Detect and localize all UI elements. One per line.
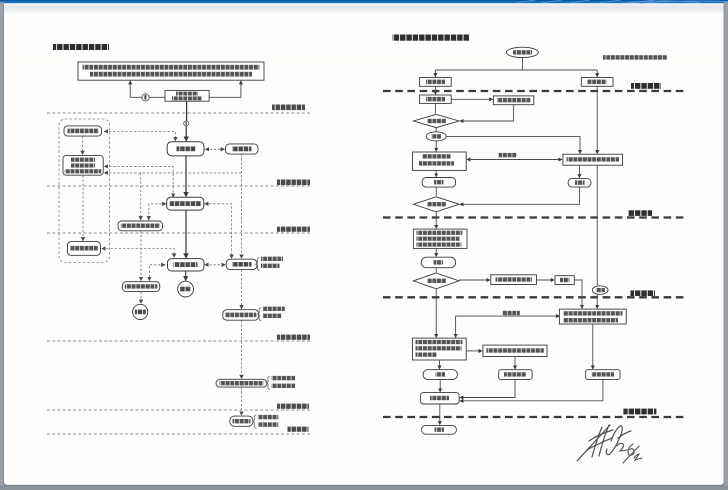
wire diamond2 down to 方案设计 box crossing separator [435, 212, 437, 229]
dashed wire 机电给排水设计 to 出图 2 [140, 292, 142, 304]
box 建筑方案设计 [64, 126, 102, 136]
circle 出图 2 [133, 304, 148, 319]
brace and timing 正常45天/特殊35天 [266, 376, 295, 390]
dashed wire 装修施工图 to 家私设计 [205, 264, 225, 266]
dashed wire into 建筑方案设计 and down into 装修方案 [105, 132, 176, 141]
circle 出图 1 [178, 281, 194, 297]
wire bypass 软装设计 long vertical down [596, 86, 598, 153]
box 方案概念设计(概念、意向图片) [413, 152, 467, 170]
dashed wire 机电初步 down to 机电给排水设计 [140, 231, 142, 281]
dashed vertical 软装方案 down to 家私设计 [241, 154, 243, 258]
blue bar decorative swirls [515, 0, 728, 3]
box 建筑施工蓝图 [68, 242, 101, 256]
stage separator 分工阶段 [383, 83, 688, 91]
wire 概念设计 to 审批L [435, 170, 437, 176]
wire 通过 down to 方案概念设计 [435, 141, 437, 151]
dashed vertical 采购 down to 软装陈设 [241, 387, 243, 415]
box 饰品及其它设计 [223, 310, 259, 321]
diamond 院长审定 1 [413, 114, 459, 127]
oval 通过 1 [426, 132, 446, 141]
wire spine 装修施工条件图 to 装修施工图 [185, 210, 187, 258]
wire 审核4 down to 院长审定4 [439, 379, 441, 391]
stage separator 项目开盘 [47, 427, 311, 434]
wire feedback right from 区域总审批 to task box [209, 81, 241, 97]
stage separator 施工图阶段 [383, 409, 688, 417]
box 机电给排水设计 [122, 282, 159, 292]
wire 通过 right to 软装意向 box [446, 136, 580, 153]
node circle 1 [142, 94, 149, 101]
dashed vertical 家私设计 down to 饰品及其它设计 [241, 270, 243, 309]
box 方案设计 [420, 78, 452, 87]
wire 方案设计 to 平面手稿 [434, 86, 436, 94]
box 审批 3 [421, 257, 455, 268]
dashed wire into 初步图 upper, branch down to 条件图 [105, 166, 174, 197]
box 家私设计 [226, 259, 257, 269]
box 审核、校对 M [499, 370, 532, 380]
box 区域总审批/集团决策委审定 [165, 90, 209, 101]
wire 审批3 to diamond3 [435, 268, 437, 273]
dashed container left column [59, 119, 110, 263]
wire 平立面大样 down to 审核校对M [514, 357, 516, 369]
box 家私、饰品及其它采购 [216, 379, 267, 387]
right frame border [724, 2, 728, 490]
wire spine 区域总审批 down to node 2 [186, 101, 188, 121]
dashed wire into 蓝图 and down into 装修施工图 [102, 249, 174, 258]
signature scribble [577, 425, 631, 461]
wire 审批S right down into 软装方案设计 [574, 280, 582, 308]
box 审批 S [555, 276, 574, 285]
wire 审核校对R down-left to 院长审定4 [460, 379, 603, 400]
dashed wire 建筑方案设计 to 初步图 box [82, 136, 84, 154]
stage separator 设计出图阶段 [47, 335, 311, 341]
box 装修施工图 [168, 259, 205, 271]
box 装修施工条件图 [167, 197, 204, 210]
wire 软装意向 to 审批R [579, 165, 581, 177]
wire spine 装修施工图 to 出图 circle [185, 271, 187, 280]
dashed wire 机电给排水设计 link to 装修施工图 [149, 265, 164, 281]
box 审批 left [422, 178, 455, 188]
top blue bar [0, 0, 728, 3]
wire 审核校对M down-left to 院长审定4 [460, 379, 515, 397]
wire diamond3 down long to 方案施工图设计 [435, 289, 437, 338]
stage separator 设计准备阶段 [47, 105, 311, 114]
stage separator 设计概念阶段 [47, 180, 311, 187]
box 软装设计 [581, 78, 613, 87]
wire 审批L to diamond2 [435, 187, 437, 196]
wire 平面布置设计图 down-left into diamond 1 [460, 105, 514, 121]
dashed wire 初步图 to 建筑施工蓝图 [82, 175, 84, 240]
dashed wire 条件图 right down to 家私设计 [205, 204, 232, 258]
box 出图 [422, 425, 457, 434]
box 软装方案设计:家私深化;墙纸、饰品、灯具等设计 [559, 309, 626, 324]
box 审核 4 [423, 370, 457, 380]
dashed vertical 饰品 down to 采购 [241, 320, 243, 378]
box 院长审定 4 [420, 393, 459, 404]
box 方案设计(设计手稿、效果图、参考图片、主材料清单及样板) [413, 229, 467, 248]
wire diamond3 right to 施工图平立面设计 [459, 279, 490, 281]
wire 方案施工图 right to 平立面大样 [466, 350, 482, 352]
stage separator 方案阶段 [383, 290, 688, 297]
wire 沟通协调 between 概念设计 and 软装意向 [467, 153, 562, 160]
wire feedback left from 区域总审批 to task box [130, 81, 165, 97]
wire 方案施工图 down to 审核 [439, 360, 441, 369]
box 方案施工图设计(材料表、卫浴五金件、灯具等) [413, 338, 467, 360]
bottom frame bar [0, 485, 728, 490]
dashed wire into 初步图 lower from 软装方案 vertical [105, 172, 242, 174]
oval 通过 2 on bypass [592, 286, 608, 295]
box 机电给排水初步设计 [118, 221, 163, 231]
box 软装意向、主题、家私设计 [563, 154, 623, 165]
dashed wire 条件图 left to 机电给排水初步设计 [149, 204, 166, 220]
brace and timing 新图15天/审图5天 for 饰品 [258, 307, 285, 321]
brace and timing 正常5天/特殊3天 [253, 415, 279, 428]
box 审批 right [568, 178, 591, 187]
brace and timing 新图15天/审图5天 for 家私设计 [256, 257, 283, 271]
wire 平面手稿 down to diamond 1 [434, 103, 436, 113]
box 审核、校对 R [586, 370, 620, 380]
wire 审批R down-left to diamond2 [460, 187, 580, 204]
title 装修设计内部工作流程一 [392, 35, 469, 41]
stage separator 装修施工阶段 [47, 404, 311, 410]
wire 沟通协调2 link 软装方案设计 to 方案施工图设计 [456, 311, 560, 338]
box 软装方案 [226, 144, 259, 154]
box 软装陈设 [230, 416, 253, 426]
box 施工图平立面、大样图设计 [483, 345, 547, 356]
wire 任务接收 split to both branches [435, 57, 597, 76]
wire spine 装修方案 to 装修施工条件图 [185, 156, 187, 197]
box 平面手稿 [420, 95, 452, 103]
wire diamond1 to 通过 [435, 128, 437, 132]
diamond 院长审定 3 [413, 273, 459, 289]
dashed wire junction down to 机电初步 second arrow [140, 173, 142, 220]
stage separator 设计方案阶段 [47, 227, 311, 233]
stage separator 概念阶段 [383, 210, 688, 217]
dashed wire 软装方案 to 装修方案 [206, 148, 225, 150]
wire 院长审定4 down to 出图 crossing separator [439, 404, 441, 425]
box 装修方案 [167, 142, 204, 156]
wire 软装方案设计 down to 审核校对R [592, 324, 594, 369]
box 初步建筑图/初步结构图/机电给排水报建图 [63, 156, 103, 176]
wire 平立面 to 审批S [537, 279, 555, 281]
diamond 院长审定 2 [413, 197, 459, 212]
note 备注 适用于住宅售楼部 [603, 55, 668, 59]
wire node 2 to 装修方案 [185, 126, 187, 141]
header gradient band [4, 3, 724, 14]
wire 方案设计box to 审批3 [435, 248, 437, 256]
box 平面布置设计图 [493, 96, 533, 105]
box 施工图平立面设计 [491, 275, 537, 285]
left frame border [0, 2, 4, 490]
task definition box [78, 62, 264, 80]
signature date 26/4 [617, 443, 642, 463]
wire 平面手稿 to 平面布置设计图 [451, 98, 492, 100]
oval 任务接收 [506, 47, 538, 57]
node circle 2 [184, 121, 189, 126]
title 室内装修设计流程 [53, 44, 109, 50]
